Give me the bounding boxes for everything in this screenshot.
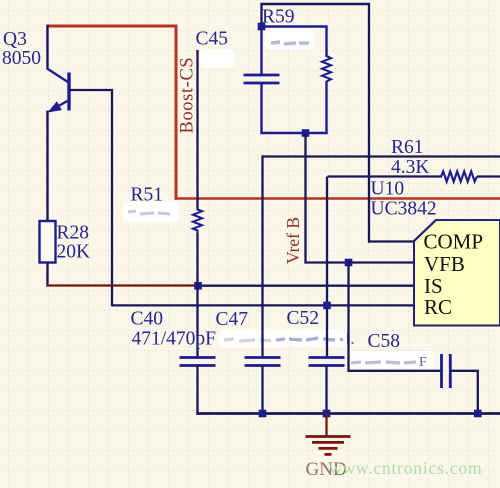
svg-text:C40: C40 (131, 309, 164, 330)
transistor Q3 emitter arrowhead (48, 101, 62, 112)
capacitor C40 bottom plate (180, 364, 216, 367)
svg-text:www.cntronics.com: www.cntronics.com (329, 458, 482, 478)
capacitor C52 bottom plate (309, 364, 345, 367)
capacitor C47 bottom plate (245, 364, 281, 367)
svg-text:20K: 20K (57, 242, 91, 263)
smudged C45 value (200, 49, 234, 68)
wire junction down to C40 (196, 286, 198, 359)
junction dot C52 ground (323, 410, 331, 418)
wire line-A horizontal (C47 net) (263, 155, 500, 157)
junction dot VFB (345, 259, 353, 267)
R59 loop top edge (260, 25, 327, 27)
svg-text:Q3: Q3 (3, 29, 27, 50)
smudged C47 value (219, 330, 283, 349)
svg-text:R28: R28 (57, 223, 90, 244)
wire line-B right segment (477, 175, 500, 177)
wire C45/R51 vertical (196, 50, 198, 209)
op-amp U10 UC3842 body (414, 220, 500, 326)
ground bar 3 (319, 447, 338, 450)
capacitor (R59 parallel) top plate (244, 74, 280, 77)
R59 loop right edge lower (325, 81, 327, 134)
capacitor (R59 parallel) bottom plate (244, 82, 280, 85)
wire IS maroon segment (47, 284, 200, 286)
wire C58 down to ground bus (477, 371, 479, 414)
wire C58 right horizontal (450, 370, 479, 372)
wire Q3 emitter down (46, 111, 48, 223)
ground bar 4 (325, 453, 332, 456)
transistor Q3 base bar (67, 73, 70, 111)
U10 bevel edge (414, 220, 436, 241)
svg-text:Vref B: Vref B (283, 217, 303, 264)
svg-text:C47: C47 (216, 309, 249, 330)
svg-text:4.3K: 4.3K (391, 157, 429, 178)
wire C47 to ground bus (261, 366, 263, 414)
svg-text:UC3842: UC3842 (371, 199, 437, 220)
capacitor C58 left plate (440, 354, 443, 388)
svg-text:8050: 8050 (2, 48, 41, 69)
wire IS navy segment to U10 (198, 285, 414, 287)
wire Boost-CS red vertical (175, 25, 178, 200)
junction dot RC (323, 302, 331, 310)
ground bar 2 (312, 441, 344, 444)
wire C58 left horizontal (349, 370, 442, 372)
wire C40 to ground bus (196, 366, 198, 415)
wire COMP horizontal to U10 (369, 240, 416, 242)
svg-text:U10: U10 (371, 179, 405, 200)
wire VFB vertical from R59 (304, 133, 306, 264)
junction dot IS / R51 / C40 (194, 282, 202, 290)
wire VFB corner horizontal (306, 261, 350, 263)
resistor R51 zigzag (193, 207, 202, 233)
svg-text:R61: R61 (391, 137, 424, 158)
wire R61/RC vertical (326, 177, 328, 359)
svg-text:F: F (419, 355, 427, 370)
wire line-B left segment (328, 175, 443, 177)
ground bus horizontal (196, 412, 500, 415)
wire RC horizontal (112, 304, 414, 306)
wire Q3 base vertical down (111, 89, 113, 306)
wire R59 top stub (260, 4, 262, 27)
wire Boost-CS red top horizontal (47, 25, 178, 28)
junction dot C58 ground (474, 410, 482, 418)
resistor R28 body (40, 221, 56, 263)
junction dot R59 top (258, 23, 266, 31)
R59 loop right edge upper (325, 27, 327, 58)
svg-text:471/470pF: 471/470pF (132, 329, 217, 350)
junction dot R59 bottom (302, 129, 310, 137)
wire VFB net down to C58 (347, 263, 349, 373)
svg-text:RC: RC (424, 295, 452, 319)
smudged C58 value (346, 351, 434, 370)
R59 loop bottom edge (260, 132, 327, 134)
transistor Q3 collector diagonal (47, 69, 70, 84)
R59 loop left edge lower (260, 83, 262, 134)
svg-text:VFB: VFB (424, 252, 465, 276)
ground bar 1 (306, 435, 351, 438)
svg-text:C45: C45 (196, 29, 229, 50)
wire COMP vertical (368, 4, 370, 243)
smudged R59 value (266, 30, 315, 50)
wire C47 vertical (261, 155, 263, 358)
capacitor C47 top plate (245, 356, 281, 359)
svg-text:C58: C58 (368, 331, 401, 352)
svg-text:COMP: COMP (424, 230, 484, 254)
R59 loop left edge upper (260, 27, 262, 76)
smudged R51 value (123, 202, 179, 223)
transistor Q1 collector wire (46, 25, 48, 70)
svg-text:C52: C52 (287, 308, 320, 329)
capacitor C58 right plate (449, 354, 452, 388)
wire VFB pin stub (349, 261, 415, 263)
svg-text:R59: R59 (262, 7, 295, 28)
capacitor C52 top plate (309, 356, 345, 359)
junction dot C47 ground (259, 410, 267, 418)
transistor Q3 emitter diagonal (50, 100, 69, 111)
ground stem (325, 414, 327, 437)
wire C52 to ground bus (325, 366, 327, 414)
svg-text:R51: R51 (131, 185, 164, 206)
wire R28 bottom (46, 263, 48, 287)
resistor R61 zigzag (441, 172, 477, 182)
wire R51 bottom to junction (196, 233, 198, 286)
wire Boost-CS red bottom horizontal (175, 197, 500, 200)
wire Q3 base horizontal (69, 89, 113, 91)
resistor R59 zigzag (322, 56, 331, 81)
svg-text:Boost-CS: Boost-CS (178, 57, 198, 134)
capacitor C40 top plate (180, 356, 216, 359)
wire top horizontal to COMP (260, 3, 370, 6)
smudged C52 value (271, 330, 354, 347)
